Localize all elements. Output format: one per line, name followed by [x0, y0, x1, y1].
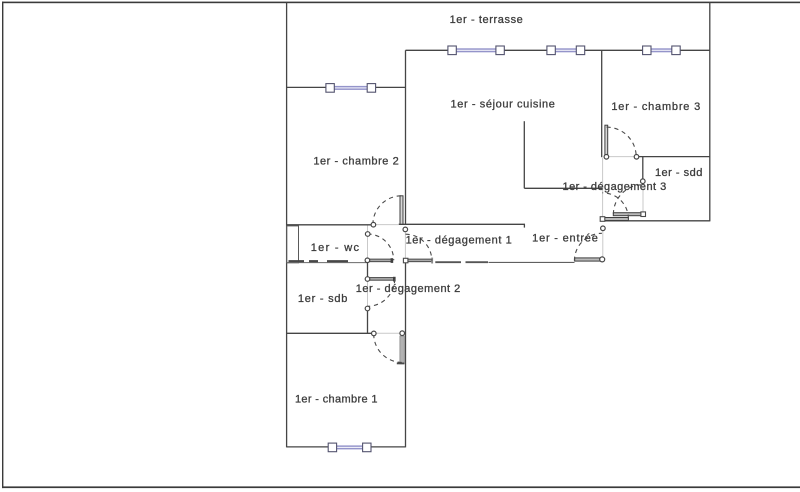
wire degagement1 top wall: [399, 223, 525, 225]
wire chambre2 top wall left segment: [287, 86, 327, 88]
wire chambre2 right wall x=405.5: [405, 50, 407, 225]
node jamb circle C11: [634, 155, 639, 160]
wire sejour top wall seg2: [504, 49, 547, 51]
svg-text:1er - sdd: 1er - sdd: [655, 167, 703, 179]
window W4 chambre3 top: [643, 46, 681, 55]
wire chambre3 top wall seg4: [680, 49, 710, 51]
wire chambre2 top wall right segment: [375, 86, 405, 88]
wire degagement1 bottom dashed segments: [435, 261, 488, 263]
wire degagement1 bottom thin wall to entree: [489, 261, 575, 263]
door D1 swing arc: [373, 196, 402, 225]
wire sdd left wall stub: [642, 157, 644, 181]
svg-text:1er - entrée: 1er - entrée: [532, 233, 598, 245]
svg-text:1er - sdb: 1er - sdb: [298, 293, 348, 305]
door D2 wc leaf: [369, 259, 392, 262]
wire opening boundary wc door x=367.5: [367, 226, 369, 260]
window W3 sejour top right: [547, 46, 585, 55]
node jamb circle C2: [403, 227, 408, 232]
wire degagement1 top wall end tick: [523, 224, 525, 227]
svg-text:1er - séjour cuisine: 1er - séjour cuisine: [451, 99, 556, 111]
wire sdd top wall: [637, 156, 710, 158]
node jamb circle C8: [372, 331, 377, 336]
wire wc bottom dashed thick line: [289, 260, 349, 262]
wire wc duct rectangle: [287, 226, 299, 263]
door D5 leaf bottom edge: [397, 363, 405, 365]
node jamb circle C7: [365, 306, 370, 311]
node jamb circle C14: [600, 257, 605, 262]
wire sejour top wall seg3: [584, 49, 643, 51]
door D4 sdb leaf: [368, 278, 394, 281]
svg-text:1er - chambre 1: 1er - chambre 1: [295, 394, 378, 406]
svg-text:1er - wc: 1er - wc: [311, 242, 361, 254]
wire left outer wall x=286.6: [286, 3, 288, 448]
wire sdb/deg2 divider wall lower segment: [367, 310, 369, 333]
wire opening boundary sdd door x=643.2: [642, 184, 644, 212]
node jamb circle C4: [365, 258, 370, 263]
wire wc top wall: [287, 224, 374, 226]
svg-text:1er - chambre 2: 1er - chambre 2: [313, 156, 399, 168]
door D1 degagement1 leaf: [400, 196, 403, 224]
door D4 swing arc: [367, 279, 394, 306]
door D5 chambre1 leaf: [400, 336, 404, 364]
wire chambre1 bottom wall left segment: [287, 446, 329, 448]
wire opening boundary chambre3 door y=157.4: [606, 156, 636, 158]
door D4 end cap: [393, 277, 396, 282]
door D7 swing arc: [613, 185, 643, 215]
svg-text:1er - dégagement 1: 1er - dégagement 1: [406, 235, 513, 247]
door D6 chambre3 leaf: [605, 125, 608, 154]
window W5 chambre1 bottom: [328, 443, 371, 452]
node jamb circle C1: [371, 222, 376, 227]
door D9 entree leaf: [575, 258, 602, 261]
window W2 sejour top left: [448, 46, 504, 55]
node jamb circle C12: [641, 179, 646, 184]
wire sejour top wall seg1: [406, 49, 449, 51]
border frame left: [2, 2, 3, 489]
wire entree top wall y=188.3: [524, 187, 602, 189]
door D2 swing arc: [367, 234, 393, 260]
door D8 hinge square: [600, 217, 605, 222]
wire sdd bottom wall: [603, 220, 710, 222]
wire right outer wall x=709.8: [709, 2, 711, 221]
wire sejour/chambre3 divider x=601.7: [601, 50, 603, 157]
door D8 swing arc: [602, 193, 628, 219]
wire chambre1 right wall x=405.5: [405, 260, 407, 447]
wire sdb/wc divider wall upper segment: [367, 260, 369, 279]
svg-text:1er - chambre 3: 1er - chambre 3: [611, 101, 701, 113]
svg-text:1er - dégagement 2: 1er - dégagement 2: [356, 283, 461, 295]
node jamb circle C3: [365, 232, 370, 237]
border frame bottom: [2, 486, 800, 488]
door D3 end cap: [431, 258, 433, 264]
wire opening boundary chambre1 door y=333.3: [374, 332, 402, 334]
wire wc bottom wall thin line: [287, 262, 368, 264]
wire sejour interior wall x=524.3: [523, 121, 525, 188]
door D8 degagement3 leaf: [602, 218, 628, 221]
door D9 swing arc: [574, 233, 602, 260]
wire opening boundary degagement3 left x=602.6: [602, 158, 604, 217]
wire opening boundary wc/deg1 top: [373, 224, 398, 226]
door D7 hinge square: [641, 212, 646, 217]
door D6 swing arc: [607, 127, 637, 157]
wire sdb bottom wall: [287, 332, 374, 334]
node jamb circle C9: [400, 331, 405, 336]
door D3 hinge square: [403, 258, 408, 263]
wire opening boundary sdb door x=367.5: [367, 279, 369, 308]
window W1 chambre2 top: [326, 84, 376, 93]
door D3 swing arc: [406, 234, 432, 260]
node jamb circle C6: [365, 277, 370, 282]
door D7 sdd leaf: [613, 213, 642, 216]
wire chambre1 bottom wall right segment: [371, 446, 406, 448]
node jamb circle C13: [601, 226, 606, 231]
wire opening boundary deg1/deg2 x=405.4: [404, 229, 406, 260]
svg-text:1er - dégagement 3: 1er - dégagement 3: [563, 181, 667, 193]
wire opening boundary entree right x=602.8: [602, 229, 604, 258]
node jamb circle C10: [604, 155, 609, 160]
door D3 degagement2 leaf: [406, 259, 433, 262]
border frame top: [2, 2, 800, 4]
svg-text:1er - terrasse: 1er - terrasse: [450, 14, 524, 26]
door D5 swing arc: [374, 334, 402, 362]
door D2 wc leaf end cap: [391, 258, 394, 263]
